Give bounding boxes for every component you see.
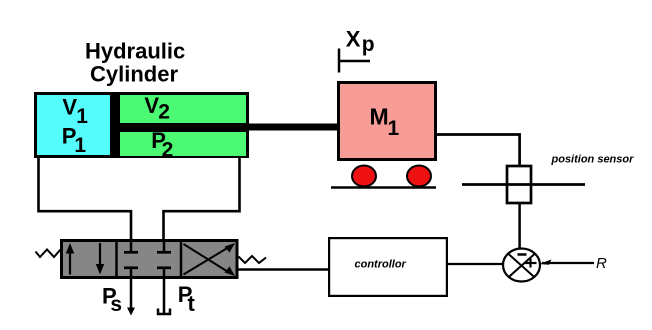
svg-text:2: 2 — [162, 139, 174, 162]
svg-text:controllor: controllor — [355, 259, 407, 271]
svg-text:1: 1 — [388, 117, 400, 140]
svg-text:V: V — [62, 95, 77, 120]
svg-text:1: 1 — [76, 105, 88, 128]
svg-text:V: V — [144, 93, 159, 118]
svg-text:s: s — [110, 293, 122, 316]
svg-text:R: R — [596, 255, 607, 272]
svg-text:2: 2 — [158, 100, 170, 123]
svg-text:1: 1 — [74, 134, 86, 157]
svg-text:M: M — [370, 104, 389, 130]
svg-text:t: t — [188, 291, 196, 316]
svg-text:Hydraulic: Hydraulic — [85, 39, 185, 64]
svg-text:p: p — [362, 33, 375, 56]
svg-text:X: X — [346, 27, 361, 52]
svg-text:position sensor: position sensor — [551, 154, 635, 166]
svg-text:Cylinder: Cylinder — [90, 62, 178, 87]
